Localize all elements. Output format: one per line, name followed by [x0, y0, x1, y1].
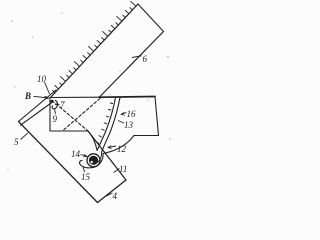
svg-text:9: 9: [53, 114, 58, 124]
pivot boss outline: [80, 154, 103, 168]
bar top edge right part: [99, 96, 155, 99]
svg-text:16: 16: [127, 109, 137, 119]
ruler blade upper edge: [51, 4, 139, 98]
bar right protrusion curve: [103, 136, 134, 154]
clamp screw dot: [51, 100, 54, 103]
svg-text:B: B: [24, 91, 31, 101]
scan specks: [7, 12, 170, 170]
svg-text:12: 12: [117, 144, 127, 154]
leader 14: [81, 155, 88, 157]
leader B: [34, 96, 49, 98]
leader 10: [45, 82, 50, 94]
bar left edge: [49, 98, 51, 132]
svg-text:10: 10: [37, 74, 47, 84]
bar bottom right edge: [134, 135, 159, 137]
bar top edge: [50, 96, 99, 98]
leader 4: [107, 193, 113, 196]
bar right edge: [155, 97, 159, 136]
svg-text:14: 14: [71, 149, 81, 159]
svg-text:4: 4: [113, 191, 118, 201]
blade lower edge hidden dashed: [63, 99, 100, 131]
protractor slot right curve: [102, 98, 121, 153]
leader 15: [83, 167, 85, 173]
svg-text:6: 6: [143, 54, 148, 64]
svg-text:5: 5: [14, 137, 19, 147]
clamp hook piece 7: [52, 101, 57, 109]
leader 6: [132, 56, 142, 58]
svg-text:11: 11: [119, 164, 127, 174]
svg-text:7: 7: [60, 100, 65, 110]
bar left protrusion curve: [88, 131, 97, 150]
leader 13: [118, 121, 124, 124]
leader 12: [108, 146, 116, 148]
lower square RT edge visible: [88, 131, 126, 180]
leader 16: [121, 113, 127, 115]
ruler blade lower edge: [99, 32, 164, 98]
pivot screw 14: [87, 154, 100, 167]
lower square TL end edge: [19, 90, 57, 122]
protractor scale ticks: [96, 103, 112, 143]
leader 7: [55, 104, 60, 106]
leader 11: [114, 169, 120, 173]
lower square LB edge: [19, 122, 98, 203]
leader 9: [55, 109, 56, 115]
svg-text:15: 15: [81, 172, 91, 182]
lower square TL inner edge: [21, 102, 53, 125]
lower square BR end edge: [98, 180, 127, 203]
pivot boss inner curve: [96, 153, 102, 164]
protractor slot left curve: [97, 98, 116, 151]
lower square RT edge hidden dashed: [52, 101, 88, 132]
leader 5: [21, 133, 29, 140]
bar bottom left edge: [50, 130, 88, 132]
ruler blade end edge: [138, 4, 164, 32]
ruler tick marks: [53, 1, 137, 92]
leader lines: [21, 56, 142, 196]
svg-text:13: 13: [124, 120, 134, 130]
